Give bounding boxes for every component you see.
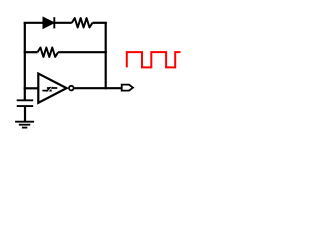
- wire: left rail vertical: [24, 22, 26, 100]
- capacitor C1 top plate: [17, 99, 34, 101]
- output terminal pin: [122, 85, 133, 91]
- wire: diode to top resistor: [54, 22, 72, 24]
- resistor (middle, zigzag): [38, 48, 59, 57]
- square wave output waveform (red): [127, 52, 181, 67]
- wire: inverter output to terminal: [74, 87, 121, 89]
- diode cathode bar: [53, 17, 55, 28]
- ground bar 2: [19, 124, 31, 126]
- ground bar 1: [15, 121, 34, 123]
- inverter output bubble: [69, 86, 74, 91]
- capacitor C1 bottom plate: [17, 105, 34, 107]
- Schmitt hysteresis glyph: [42, 87, 57, 92]
- resistor (top, zigzag): [72, 18, 93, 27]
- wire: middle resistor to right rail: [58, 51, 107, 53]
- wire: top resistor to right rail: [92, 22, 106, 24]
- diode anode triangle: [43, 17, 54, 28]
- wire: right rail vertical: [105, 22, 107, 89]
- wire: top branch left segment: [24, 22, 44, 24]
- wire: middle branch left segment: [24, 51, 38, 53]
- ground bar 3: [22, 127, 27, 129]
- wire: capacitor to ground: [24, 106, 26, 121]
- op-amp style Schmitt inverter triangle U1: [38, 74, 66, 103]
- wire: input node to inverter: [24, 87, 39, 89]
